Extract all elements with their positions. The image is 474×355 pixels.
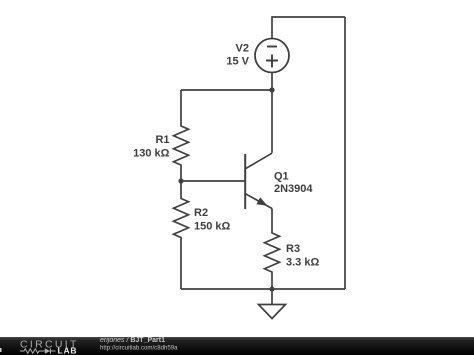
svg-text:http://circuitlab.com/c8dh59a: http://circuitlab.com/c8dh59a xyxy=(100,345,178,352)
svg-text:130 kΩ: 130 kΩ xyxy=(133,148,170,160)
voltage source V2 xyxy=(255,39,289,91)
footer url text xyxy=(100,345,178,352)
left edge mark xyxy=(0,348,2,352)
svg-text:R3: R3 xyxy=(286,243,300,255)
svg-text:V2: V2 xyxy=(236,43,249,55)
resistor R3 xyxy=(265,209,280,290)
logo LAB text xyxy=(58,346,78,355)
label R1 xyxy=(133,134,170,160)
label R3 xyxy=(286,243,319,269)
transistor Q1 xyxy=(245,153,272,209)
svg-text:erijones / BJT_Part1: erijones / BJT_Part1 xyxy=(100,337,165,344)
label R2 xyxy=(194,207,231,233)
resistor R2 xyxy=(174,181,189,289)
svg-text:LAB: LAB xyxy=(58,346,78,355)
svg-text:R2: R2 xyxy=(194,207,208,219)
svg-text:R1: R1 xyxy=(155,134,169,146)
wire right xyxy=(344,17,346,289)
wire collector xyxy=(271,90,273,153)
wire top xyxy=(272,17,345,39)
ground xyxy=(259,289,286,319)
wire node A to R1 top xyxy=(181,89,272,91)
svg-text:150 kΩ: 150 kΩ xyxy=(194,221,231,233)
label Q1 xyxy=(274,171,313,196)
label V2 xyxy=(226,43,249,68)
footer bar xyxy=(0,337,474,355)
svg-text:3.3 kΩ: 3.3 kΩ xyxy=(286,257,319,269)
node A xyxy=(269,87,274,92)
node B xyxy=(178,178,183,183)
svg-text:15 V: 15 V xyxy=(226,56,249,68)
svg-text:Q1: Q1 xyxy=(274,171,289,183)
wire bottom xyxy=(181,288,345,290)
svg-text:2N3904: 2N3904 xyxy=(274,183,313,195)
node C xyxy=(269,286,274,291)
wire base xyxy=(181,180,245,182)
logo resistor-diode line xyxy=(20,348,56,353)
footer title text xyxy=(100,337,165,344)
resistor R1 xyxy=(174,90,189,181)
logo CIRCUIT text xyxy=(20,339,79,351)
